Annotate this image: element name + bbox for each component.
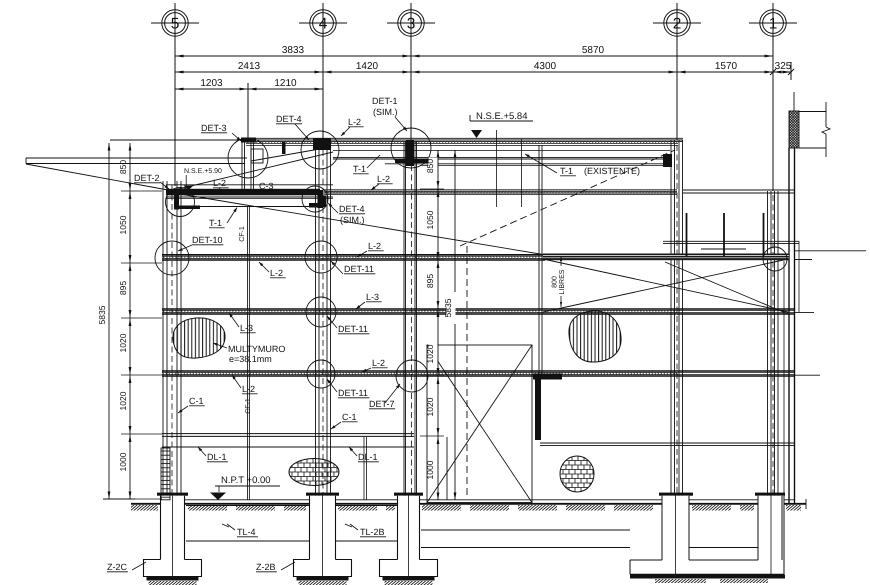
svg-text:DET-11: DET-11 [344,264,374,274]
svg-text:1050: 1050 [118,215,128,234]
svg-text:1210: 1210 [274,78,297,89]
svg-text:(EXISTENTE): (EXISTENTE) [584,166,640,176]
svg-text:T-1: T-1 [560,166,573,176]
svg-text:DET-2: DET-2 [134,173,160,183]
svg-text:CF-1: CF-1 [245,398,252,414]
svg-text:DET-1: DET-1 [372,96,398,106]
svg-text:5835: 5835 [97,305,107,324]
svg-text:MULTYMURO: MULTYMURO [228,344,285,354]
svg-text:1020: 1020 [118,333,128,352]
svg-text:L-3: L-3 [366,292,379,302]
svg-text:DET-11: DET-11 [338,324,368,334]
svg-text:DL-1: DL-1 [207,452,227,462]
svg-text:N.S.E.+5.90: N.S.E.+5.90 [184,168,222,175]
svg-text:1050: 1050 [425,210,435,229]
svg-text:L-2: L-2 [372,358,385,368]
svg-text:1570: 1570 [715,61,738,72]
svg-text:1020: 1020 [425,397,435,416]
svg-text:L-2: L-2 [270,268,283,278]
svg-text:Z-2B: Z-2B [256,562,276,572]
svg-text:1: 1 [769,16,778,33]
svg-text:N.P.T +0.00: N.P.T +0.00 [221,475,271,486]
svg-text:5835: 5835 [443,298,453,317]
svg-text:850: 850 [118,160,128,174]
svg-text:N.S.E.+5.84: N.S.E.+5.84 [476,111,528,122]
svg-text:1020: 1020 [118,391,128,410]
svg-text:895: 895 [118,281,128,295]
svg-text:850: 850 [425,159,435,173]
svg-text:1000: 1000 [425,460,435,479]
svg-text:3: 3 [407,16,416,33]
svg-text:LIBRES: LIBRES [559,269,566,294]
svg-text:DET-4: DET-4 [276,114,302,124]
svg-text:1020: 1020 [425,344,435,363]
svg-text:4: 4 [319,16,328,33]
svg-text:DL-1: DL-1 [358,452,378,462]
svg-text:(SIM.): (SIM.) [373,107,398,117]
svg-text:Z-2C: Z-2C [107,562,128,572]
svg-text:L-2: L-2 [368,241,381,251]
svg-text:2: 2 [673,16,682,33]
svg-text:(SIM.): (SIM.) [340,215,365,225]
svg-text:CF-1: CF-1 [239,226,246,242]
svg-text:2413: 2413 [238,61,261,72]
svg-text:TL-2B: TL-2B [360,527,385,537]
svg-text:L-2: L-2 [348,117,361,127]
svg-text:DET-4: DET-4 [339,204,365,214]
svg-text:325: 325 [775,61,792,72]
svg-text:1203: 1203 [200,78,223,89]
svg-text:C-1: C-1 [189,396,204,406]
svg-text:C-3: C-3 [259,181,274,191]
svg-text:DET-7: DET-7 [369,399,395,409]
svg-text:800: 800 [552,276,559,288]
svg-text:DET-3: DET-3 [201,123,227,133]
svg-text:T-1: T-1 [209,218,222,228]
svg-text:L-2: L-2 [242,384,255,394]
svg-text:3833: 3833 [282,45,305,56]
svg-text:5870: 5870 [582,45,605,56]
svg-text:DET-11: DET-11 [338,388,368,398]
svg-text:1000: 1000 [118,452,128,471]
svg-text:L-3: L-3 [240,323,253,333]
svg-text:1420: 1420 [356,61,379,72]
svg-text:TL-4: TL-4 [237,527,256,537]
svg-text:L-2: L-2 [377,174,390,184]
svg-text:895: 895 [425,274,435,288]
svg-text:L-2: L-2 [213,178,226,188]
svg-text:e=38.1mm: e=38.1mm [229,354,272,364]
svg-text:DET-10: DET-10 [192,235,223,245]
svg-text:5: 5 [171,16,180,33]
svg-text:T-1: T-1 [353,164,366,174]
svg-text:4300: 4300 [534,61,557,72]
svg-text:C-1: C-1 [342,412,357,422]
